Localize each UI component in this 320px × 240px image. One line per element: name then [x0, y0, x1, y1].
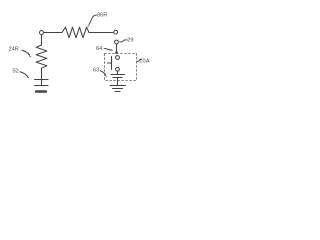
wire vertical left — [41, 35, 43, 45]
label 63 leader — [100, 71, 105, 75]
label 24R leader — [22, 50, 30, 55]
wire — [44, 32, 62, 34]
ground right line 2 — [113, 88, 123, 90]
wire stem — [41, 80, 43, 85]
battery plate long — [111, 74, 125, 76]
resistor 86R — [62, 27, 89, 38]
battery plate short — [113, 77, 122, 79]
node A terminal circle — [40, 31, 44, 35]
svg-text:24R: 24R — [9, 47, 19, 53]
wire — [89, 32, 113, 34]
battery pack box 10A (dashed) — [105, 54, 137, 81]
node B terminal circle — [114, 30, 118, 34]
ground plate left top — [35, 79, 49, 81]
ground right line 1 — [110, 85, 126, 87]
svg-text:10A: 10A — [139, 58, 150, 64]
junction dot — [115, 51, 118, 54]
wire stem through box edge — [117, 78, 119, 85]
svg-text:29: 29 — [127, 38, 133, 44]
switch contact D circle — [116, 56, 120, 60]
node C terminal circle — [115, 40, 119, 44]
resistor 24R — [36, 45, 47, 68]
switch actuator tick — [108, 62, 112, 64]
svg-text:86R: 86R — [97, 13, 107, 19]
wire stem — [117, 71, 119, 74]
label 52 leader — [20, 72, 28, 77]
label 64 leader — [104, 48, 111, 50]
switch lever bar — [111, 57, 113, 70]
svg-text:64: 64 — [96, 46, 102, 52]
svg-text:63: 63 — [93, 67, 99, 73]
label 29 leader — [120, 40, 127, 42]
svg-text:52: 52 — [13, 69, 19, 75]
label 10A leader — [137, 59, 142, 61]
switch contact E circle — [116, 67, 120, 71]
wire — [41, 68, 43, 79]
wire — [116, 44, 118, 52]
ground left thick bar — [36, 90, 46, 93]
label 86R leader — [89, 15, 97, 25]
ground left lower plate — [35, 85, 49, 87]
ground right line 3 — [115, 91, 120, 93]
